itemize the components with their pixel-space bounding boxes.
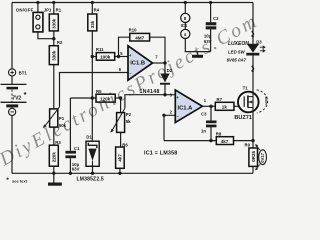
svg-text:*: * [24,90,27,99]
svg-text:R11: R11 [96,47,104,52]
resistor R10 [130,33,150,41]
svg-text:330k: 330k [51,50,56,61]
svg-text:R10: R10 [129,28,137,33]
svg-text:R4: R4 [94,7,100,12]
resistor R1 [49,14,58,31]
source stub [248,107,253,109]
arrow to R9 bottom node [256,164,260,169]
wire: P1 to R3 [53,127,55,145]
wire: R1 to R2 [53,31,55,46]
wire: R11 right lead to IC1.B pin5 [115,56,128,58]
svg-text:R7: R7 [217,97,223,102]
svg-text:IC1.B: IC1.B [130,61,145,67]
wire: IC1 pin4 to ground run [185,39,210,52]
node: pin5 / R10 [117,55,120,58]
battery BT1 plate long (top cell) [1,83,27,85]
node: R1/R2/JP1 [52,37,55,40]
svg-text:63V: 63V [72,167,80,172]
battery BT1 minus terminal circle [9,108,16,115]
node: bottom rail / C1 [69,172,72,175]
MOSFET T1 BUZ71 [238,92,259,113]
wire: JP1 stub from top rail [37,3,39,13]
wire: left rail upper (to battery) [11,3,13,85]
op-amp IC1.B [128,46,153,80]
wire: left rail lower (battery to bottom) [11,107,13,173]
resistor R11 [96,53,114,61]
svg-text:5k: 5k [126,119,131,124]
battery BT1 plate short thick (top cell) [7,87,19,90]
svg-text:R9: R9 [245,142,251,147]
wire: R8 left wire [164,140,216,142]
potentiometer P2 [117,113,125,133]
node: output / C3 [209,105,212,108]
LED light arrows [260,46,265,49]
junction nodes [36,1,254,175]
svg-text:C2: C2 [213,16,219,21]
wire: top rail to R1 [53,3,55,15]
svg-text:100k: 100k [100,55,111,60]
svg-text:6V85 0A7: 6V85 0A7 [227,58,247,63]
node: top rail / R1 [52,1,55,4]
zener D1 (LM385Z2,5) [86,141,99,166]
wire: R5 right lead to P2 top [115,98,120,113]
svg-text:0R25: 0R25 [251,150,256,161]
wire: R7 to MOSFET gate [234,105,244,107]
wire: IC1.A output to R7 [202,105,215,107]
wire: P2 bottom to R6 [120,132,122,147]
wire: IC1 ground stub [197,52,199,55]
node: bottom rail / R3 / ground [52,172,55,175]
node: top rail / IC1 pin8 [184,1,187,4]
svg-text:P2: P2 [126,112,132,117]
wire: JP1 bottom jog to R1/R2 node [38,32,54,39]
wire: LED D3 to MOSFET drain [252,56,254,93]
node: IC1.B out / R10 / D2 [163,61,166,64]
node: bottom rail / R6 [118,172,121,175]
wire: MOSFET source to R9 [252,112,254,148]
svg-text:D1: D1 [86,135,92,140]
svg-text:JP1: JP1 [44,7,52,12]
wire: R8 right lead to sense node [234,140,254,142]
wire: bottom ground rail [12,172,253,174]
wire: IC1 pin8 to pin4 [184,22,186,29]
capacitor C2 [206,22,217,25]
resistor R4 [88,14,97,31]
IC1 power pin 4 [181,29,190,38]
arrow to R9 top node [256,145,260,150]
connector JP1 [33,12,43,32]
svg-text:C1: C1 [74,146,80,151]
resistor R6 [116,147,125,168]
wire: D2 anode lead [164,63,166,74]
wire: D1 to bottom rail [92,166,94,173]
svg-text:220k: 220k [51,152,56,163]
svg-text:4M7: 4M7 [135,36,144,41]
node: D2 / pin3 [163,93,166,96]
wire: P1 wiper riser to IC1.B pin6 [60,73,129,107]
svg-text:ON/OFF: ON/OFF [16,7,34,12]
potentiometer P1 [50,109,58,127]
LED D3 [247,44,259,53]
capacitor C3 [206,121,217,124]
wire: R9 to bottom rail [252,166,254,173]
wire: C3 bottom riser to R8 wire [210,127,212,141]
ground symbol (IC1) [192,55,203,58]
svg-text:BT1: BT1 [19,71,28,76]
IC1 power pin 8 [181,13,190,22]
svg-text:7V2: 7V2 [12,95,21,101]
drain stub [248,96,253,98]
resistor R3 [49,145,58,166]
node: pin2 / R8 riser [162,114,165,117]
svg-text:LED 5W: LED 5W [228,49,245,54]
svg-text:C3: C3 [201,112,207,117]
wire: C3 top riser from output [210,106,212,120]
wire: R11 left lead [92,56,96,58]
svg-text:BUZ71: BUZ71 [234,115,251,121]
svg-text:>6V8: >6V8 [263,96,268,106]
resistor R9 [249,148,258,166]
wire: R2 to P1 [53,65,55,109]
wire: IC1 pin8 stub from top rail [184,3,186,14]
wire: IC1.B output to D2 [153,62,166,64]
wire: C1 riser [69,98,71,151]
diode D2 [160,74,169,83]
svg-text:IC1: IC1 [181,23,188,28]
svg-text:330k: 330k [51,18,56,29]
svg-text:4k7: 4k7 [221,139,229,144]
channel bar [247,95,249,107]
node: R4 column / C1 / R5 [91,96,94,99]
svg-text:see text: see text [12,179,28,184]
capacitor C1 [65,151,76,154]
body stub with arrow [248,101,253,103]
wire: top rail to C2 [210,3,212,23]
svg-text:33k: 33k [90,20,95,28]
wire: IC1.A pin2 wire and riser to R8 [164,115,175,140]
battery BT1 plate short thick (bottom cell) [6,104,18,107]
node: R5 / P2 [119,96,122,99]
svg-text:4k7: 4k7 [118,154,123,162]
wire: C1 top branch to R5 left [70,97,96,99]
wire: ground stub below bottom rail [53,173,55,182]
svg-text:T1: T1 [243,85,249,90]
wire: R6 to bottom rail [119,168,121,173]
svg-text:R6: R6 [122,142,128,147]
wire: right column top (rail to LED D3) [252,3,254,44]
node: R4 column / R11 [91,55,94,58]
node: C3 / R8 wire [209,139,212,142]
svg-text:D3: D3 [256,40,262,45]
svg-text:1n: 1n [201,129,206,134]
wire: R10 left riser from pin5 node [119,37,130,56]
wire: C2 bottom lead [210,29,212,51]
ground symbol (bottom left) [48,183,62,186]
wire: R4 column down to D1 [91,31,93,142]
op-amp IC1.A [175,90,202,123]
battery BT1 plus terminal circle [9,69,16,76]
gate bar [243,96,245,107]
node: bottom rail / D1 [91,172,94,175]
wire: top rail to R4 [91,3,93,15]
resistor R2 [49,46,58,65]
wire: C1 to bottom rail [69,158,71,173]
battery BT1 dashed cell link [11,90,13,102]
resistor R5 [96,94,115,102]
svg-text:IC1.A: IC1.A [178,105,194,111]
wire: top supply rail [12,2,253,4]
svg-text:0V17: 0V17 [260,152,265,162]
battery BT1 plate long (bottom cell) [1,101,27,103]
svg-text:LM385Z2,5: LM385Z2,5 [77,176,104,182]
wire: IC1.A pin3 wire with P2 wiper riser [125,95,175,109]
wire: R3 to bottom rail [53,166,55,173]
resistor R7 [215,102,234,110]
node: top rail / JP1 [36,1,39,4]
node: source sense / R8 [251,139,254,142]
lead squiggle below LED [252,66,254,72]
svg-text:R1: R1 [56,7,62,12]
measurement arc at gate [257,90,268,113]
resistor R8 [216,137,233,145]
svg-text:1k: 1k [222,105,228,110]
wire: R10 right lead and riser to output node [150,37,165,63]
svg-text:R8: R8 [216,132,222,137]
lead squiggle above LED [252,31,254,37]
svg-text:R2: R2 [57,40,63,45]
node: top rail / C2 [209,1,212,4]
measurement oval 0V17 [259,150,267,165]
node: top rail / R4 [91,1,94,4]
wire: D2 cathode to pin3 wire [164,85,166,95]
svg-text:IC1 = LM358: IC1 = LM358 [144,151,178,157]
